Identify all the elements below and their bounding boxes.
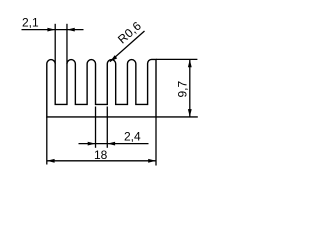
dim 2,1 extension line right (x=66.96) [66,24,68,64]
dim 18 arrow left (points left, tip at 46.8) [47,159,55,163]
dim 2,1 arrow right (points left, tip at 66.96) [67,28,75,32]
dim 2,4 arrow right (points left, tip at 107.28) [107,142,115,146]
dim 9,7 arrow bottom (points down) [188,109,192,117]
dim 9,7 arrow top (points up) [188,59,192,67]
dim 2,4 extension line left (x=95.52) [95,107,97,148]
svg-text:2,1: 2,1 [22,16,39,30]
dim 9,7 bottom extension line [156,116,198,118]
svg-text:2,4: 2,4 [124,130,141,144]
dim 18 arrow right (points right, tip at 156.0) [148,159,156,163]
dim 9,7 top extension line [156,58,197,60]
dim 2,4 extension line right (x=107.28) [106,107,108,148]
dim 2,1 extension line left (x=55.2) [54,24,56,64]
svg-text:9,7: 9,7 [175,80,189,97]
dim 18 extension line left (body left edge continued) [46,117,48,165]
dim 9,7 dimension line [189,59,191,117]
dim 2,4 arrow left (points right, tip at 95.52) [88,142,96,146]
dim 2,1 dimension line [22,29,84,31]
heatsink profile outline [47,59,156,117]
dim 18 extension line right (body right edge continued) [155,117,157,166]
leader R0,6 line [110,31,145,62]
dim 2,4 dimension line [79,143,149,145]
dim 2,1 arrow left (points right, tip at 55.2) [47,28,55,32]
leader R0,6 arrowhead (tip at fin4 top-left) [110,55,117,62]
dim 18 dimension line [47,160,156,162]
svg-text:18: 18 [94,148,108,162]
